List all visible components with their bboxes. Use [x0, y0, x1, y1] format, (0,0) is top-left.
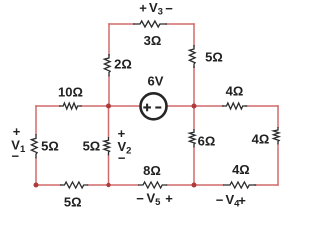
svg-text:V3: V3 [149, 0, 163, 18]
wire right vertical of top loop upper [193, 24, 195, 46]
svg-text:−: − [12, 148, 20, 163]
svg-text:8Ω: 8Ω [143, 163, 161, 178]
resistor 5ohm (left edge, V1) [31, 134, 37, 158]
svg-text:3Ω: 3Ω [144, 33, 162, 48]
svg-text:4Ω: 4Ω [252, 132, 270, 147]
resistor 10ohm (middle left) [59, 103, 82, 109]
resistor 4ohm (right edge) [273, 127, 279, 144]
svg-text:5Ω: 5Ω [83, 138, 101, 153]
svg-text:6V: 6V [148, 73, 164, 88]
wire right edge upper [277, 106, 279, 127]
svg-text:6Ω: 6Ω [198, 134, 216, 149]
voltage source 6V circle [141, 93, 167, 119]
svg-text:−: − [165, 1, 173, 16]
svg-text:5Ω: 5Ω [205, 50, 223, 65]
resistor 5ohm (vertical x=194 top) [189, 45, 195, 68]
resistor 8ohm (bottom middle) [138, 182, 167, 188]
wire right edge lower [277, 144, 279, 185]
junction node bottom-right [192, 183, 197, 188]
svg-text:V5: V5 [147, 191, 162, 209]
wire center vertical lower [108, 155, 110, 185]
junction node middle-right [192, 104, 197, 109]
svg-text:4Ω: 4Ω [232, 162, 250, 177]
minus sign inside source [155, 106, 161, 108]
wire middle left to 10ohm [36, 105, 60, 107]
wire bottom 8ohm to 4ohm [167, 184, 223, 186]
wire bottom 5ohm to 8ohm [88, 184, 138, 186]
plus sign inside source [143, 104, 151, 112]
svg-text:10Ω: 10Ω [58, 84, 83, 99]
svg-text:+: + [165, 191, 173, 206]
wire right vertical of top loop lower [193, 67, 195, 106]
wire middle from 4ohm to right edge [246, 105, 278, 107]
wire left vertical of top loop lower [108, 76, 110, 106]
svg-text:−: − [136, 191, 144, 206]
svg-text:+: + [139, 0, 147, 15]
wire middle from source to 4ohm [167, 105, 223, 107]
resistor 5ohm (bottom left) [60, 182, 88, 188]
wire left edge upper [35, 106, 37, 134]
resistor 5ohm (center vertical, V2) [104, 137, 110, 155]
wire bottom 4ohm to right edge [255, 184, 278, 186]
svg-text:−: − [118, 150, 126, 165]
wire middle from 10ohm to source [81, 105, 140, 107]
svg-text:+: + [238, 193, 246, 208]
wire left edge lower [35, 158, 37, 185]
resistor 6ohm (x=194 lower) [189, 129, 195, 147]
resistor 2ohm (vertical x=109) [104, 54, 110, 76]
resistor 4ohm (bottom right) [223, 182, 256, 188]
resistor R3 3ohm (top) [133, 21, 167, 27]
svg-text:4Ω: 4Ω [226, 84, 244, 99]
svg-text:2Ω: 2Ω [114, 57, 132, 72]
svg-text:−: − [216, 193, 224, 208]
junction node middle-center [106, 104, 111, 109]
wire center vertical upper below middle [108, 106, 110, 137]
junction node bottom-left corner [34, 183, 39, 188]
svg-text:5Ω: 5Ω [41, 139, 59, 154]
wire top-left segment [109, 23, 134, 25]
wire top-right segment [166, 23, 194, 25]
wire node3 vertical upper below middle [193, 106, 195, 129]
wire bottom left to 5ohm [36, 184, 61, 186]
resistor 4ohm (middle right) [222, 103, 247, 109]
svg-text:5Ω: 5Ω [64, 195, 82, 210]
wire node3 vertical lower [193, 147, 195, 185]
wire left vertical of top loop upper [108, 24, 110, 55]
junction node bottom-center [106, 183, 110, 187]
